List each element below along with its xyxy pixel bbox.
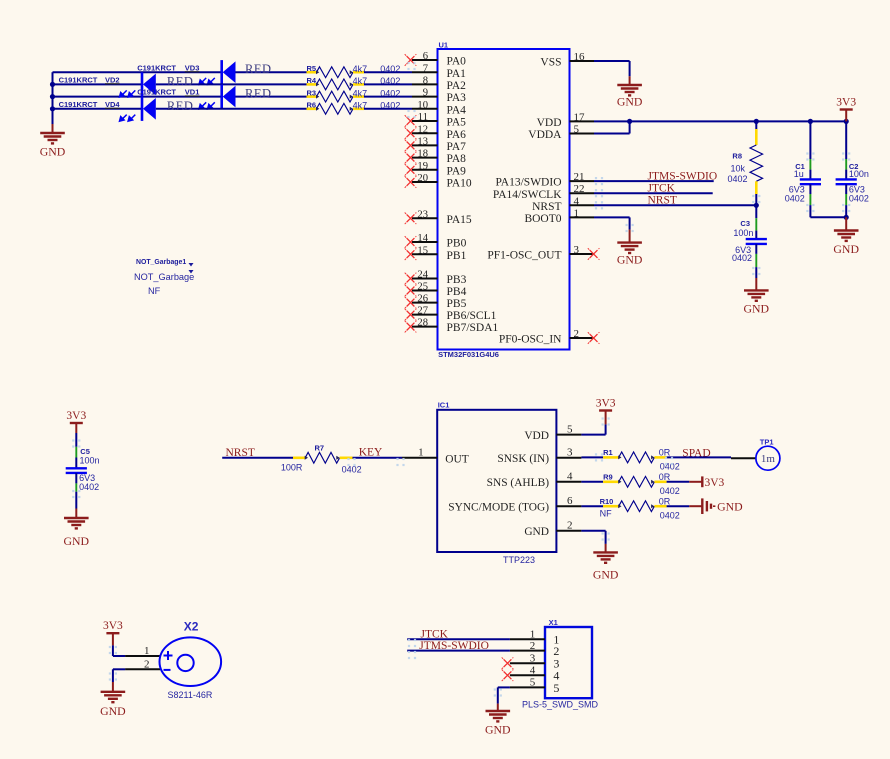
wire VSS to ground [594,60,630,62]
pin 1 X2 [125,655,160,657]
pin 20 PA10 [412,181,438,183]
wire R6 to U1 [364,108,412,110]
pin 5 X1 [510,686,545,688]
svg-text:0402: 0402 [785,194,805,204]
svg-text:1m: 1m [761,453,776,465]
svg-text:SNS (AHLB): SNS (AHLB) [487,477,550,489]
pin 6 PA0 [412,59,438,61]
svg-text:3: 3 [574,244,580,256]
svg-text:PA6: PA6 [447,129,467,141]
wire NRST [594,204,756,206]
resistor R6 4k7 [307,108,317,111]
pin 6 SYNC/MODE (TOG) [556,505,581,507]
junction C1 top [808,119,813,124]
junction C2 gnd [844,215,849,220]
svg-text:0402: 0402 [727,174,747,184]
svg-text:1: 1 [574,207,580,219]
svg-text:GND: GND [617,95,643,109]
junction [50,82,55,87]
power 3V3 sideways [689,476,702,487]
svg-text:JTCK: JTCK [421,628,449,640]
ground IC1 [593,544,618,563]
wire C1 C2 bottom rail [810,216,846,218]
pin 7 PA1 [412,71,438,73]
svg-text:12: 12 [417,124,428,135]
svg-text:VSS: VSS [540,57,561,69]
svg-text:100n: 100n [733,228,753,238]
svg-text:2: 2 [144,658,150,670]
svg-text:C3: C3 [740,219,750,228]
svg-text:R5: R5 [307,64,317,73]
svg-text:3: 3 [567,447,573,459]
diode VD1 [220,85,223,109]
svg-text:1: 1 [144,645,150,657]
svg-text:1: 1 [418,447,424,459]
capacitor C2 100n [845,121,847,159]
svg-text:NOT_Garbage: NOT_Garbage [134,272,194,282]
svg-text:PA1: PA1 [447,68,467,80]
resistor R8 10k [755,121,757,129]
svg-text:3V3: 3V3 [596,397,616,409]
junction 3V3 [844,119,849,124]
pale marks [595,177,597,179]
svg-text:3V3: 3V3 [66,410,86,422]
svg-text:23: 23 [417,209,428,220]
svg-text:9: 9 [423,88,428,99]
ground BOOT0 [617,230,642,253]
wire R3 to U1 [364,96,412,98]
pin 2 PF0-OSC_IN [570,337,593,339]
svg-text:VD3: VD3 [185,63,200,72]
no connect X1 pin4 [502,670,514,682]
svg-text:25: 25 [417,282,428,293]
wire R5 to U1 [364,71,412,73]
mcu U1 box [438,49,570,350]
svg-text:7: 7 [423,63,428,74]
no connect X1 pin3 [502,657,514,669]
svg-text:1u: 1u [794,169,804,179]
svg-text:R4: R4 [307,76,317,85]
svg-text:JTMS-SWDIO: JTMS-SWDIO [648,170,718,182]
testpoint TP1 [731,457,756,459]
svg-text:4: 4 [574,195,580,207]
wire JTCK X1 [407,638,510,640]
svg-text:R9: R9 [603,472,613,481]
pin 24 PB3 [412,278,438,280]
wire X1 pin5 gnd [498,686,510,688]
resistor R10 0R NF [603,505,619,508]
pin 3 X1 [510,662,545,664]
svg-text:R3: R3 [307,88,317,97]
svg-text:21: 21 [574,171,585,183]
wire SPAD [667,456,731,458]
pin 2 GND [556,530,581,532]
pin 9 PA3 [412,96,438,98]
svg-text:100n: 100n [849,169,869,179]
wire KEY to OUT [353,457,403,459]
pin 1 BOOT0 [570,216,595,218]
pin 2 X2 [125,668,160,670]
svg-text:100n: 100n [80,456,100,466]
wire GND bus vertical [52,72,54,124]
svg-text:5: 5 [574,124,580,136]
svg-text:PB6/SCL1: PB6/SCL1 [447,310,497,322]
pin 27 PB6/SCL1 [412,314,438,316]
svg-text:PB3: PB3 [447,274,467,286]
svg-text:0R: 0R [659,448,671,458]
svg-text:OUT: OUT [445,454,468,466]
svg-text:PA4: PA4 [447,104,467,116]
pin 15 PB1 [412,253,438,255]
capacitor C1 1u [809,121,811,159]
svg-text:VDDA: VDDA [528,129,562,141]
svg-text:NRST: NRST [532,201,561,213]
pin 25 PB4 [412,290,438,292]
pin 23 PA15 [412,217,438,219]
wire SNSK [581,456,603,458]
capacitor C5 100n [75,433,77,447]
svg-text:0402: 0402 [342,464,362,474]
svg-text:0R: 0R [659,472,671,482]
wire VD2 anode [156,83,307,85]
junction R8 bottom [754,203,759,208]
svg-text:2: 2 [567,520,573,532]
svg-text:0402: 0402 [660,462,680,472]
ground C3 [744,278,769,301]
svg-text:X1: X1 [549,618,558,627]
junction VDDA [627,119,632,124]
diode VD2 [141,72,144,96]
svg-text:PA9: PA9 [447,165,467,177]
svg-text:14: 14 [417,233,428,244]
pin 4 SNS (AHLB) [556,481,581,483]
svg-text:18: 18 [417,149,428,160]
svg-text:GND: GND [524,526,549,538]
svg-text:NF: NF [600,509,612,519]
svg-text:PA7: PA7 [447,141,467,153]
pin 26 PB5 [412,302,438,304]
connector X1 box [545,627,592,698]
svg-text:PA10: PA10 [447,178,472,190]
junction [50,94,55,99]
svg-text:0402: 0402 [79,482,99,492]
wire JTMS-SWDIO X1 [407,650,510,652]
svg-text:C191KRCT: C191KRCT [59,75,98,84]
svg-text:3V3: 3V3 [103,620,123,632]
svg-text:5: 5 [553,681,559,695]
svg-text:22: 22 [574,183,585,195]
svg-text:27: 27 [417,306,428,317]
svg-text:PB0: PB0 [447,238,467,250]
svg-text:GND: GND [64,534,90,548]
svg-text:GND: GND [617,253,643,267]
wire X2 pin2 gnd [113,668,125,670]
svg-text:4: 4 [530,665,536,677]
svg-text:PF0-OSC_IN: PF0-OSC_IN [499,334,562,346]
svg-text:STM32F031G4U6: STM32F031G4U6 [438,350,499,359]
svg-text:R10: R10 [600,497,614,506]
svg-text:VD1: VD1 [185,88,200,97]
resistor R4 4k7 [307,83,317,86]
svg-text:R8: R8 [732,152,742,161]
pin 18 PA8 [412,157,438,159]
svg-text:JTMS-SWDIO: JTMS-SWDIO [419,640,489,652]
svg-text:10k: 10k [730,164,745,174]
diode VD3 [220,60,223,84]
ground X1 [486,704,511,722]
svg-text:PA2: PA2 [447,80,467,92]
junction R8 top [754,119,759,124]
pin 12 PA6 [412,132,438,134]
pin 5 VDDA [570,133,595,135]
pin 10 PA4 [412,108,438,110]
svg-text:16: 16 [574,51,586,63]
svg-text:PB5: PB5 [447,298,467,310]
capacitor C3 100n [755,205,757,218]
resistor R9 0R [603,480,619,483]
svg-text:5: 5 [567,423,573,435]
ground X2 [101,682,126,702]
svg-text:IC1: IC1 [438,400,450,409]
ground C5 [64,509,89,529]
svg-text:PA13/SWDIO: PA13/SWDIO [495,177,561,189]
pin 19 PA9 [412,169,438,171]
wire SNS [581,481,603,483]
svg-text:R6: R6 [307,101,317,110]
svg-text:10: 10 [417,100,428,111]
pin 17 VDD [570,120,595,122]
svg-text:TP1: TP1 [760,437,774,446]
pin 4 X1 [510,674,545,676]
svg-text:GND: GND [744,302,770,316]
svg-text:NRST: NRST [648,195,677,207]
pin 13 PA7 [412,144,438,146]
svg-text:RED: RED [245,87,272,101]
resistor R7 100R [293,456,305,459]
svg-text:6: 6 [423,51,428,62]
svg-text:R7: R7 [315,443,325,452]
svg-text:TTP223: TTP223 [503,555,535,565]
svg-text:PA0: PA0 [447,56,467,68]
svg-text:C191KRCT: C191KRCT [137,63,176,72]
resistor R3 4k7 [307,95,317,98]
svg-text:28: 28 [417,318,428,329]
svg-text:15: 15 [417,245,428,256]
svg-text:SYNC/MODE (TOG): SYNC/MODE (TOG) [448,501,549,513]
svg-text:JTCK: JTCK [648,182,676,194]
pin 14 PB0 [412,241,438,243]
svg-text:0402: 0402 [849,194,869,204]
wire VD1 anode [236,96,307,98]
svg-text:VD2: VD2 [105,75,120,84]
svg-text:C191KRCT: C191KRCT [59,100,98,109]
svg-text:X2: X2 [184,620,199,634]
svg-text:NF: NF [148,286,161,296]
resistor R1 0R [603,456,619,459]
svg-text:PB7/SDA1: PB7/SDA1 [447,322,499,334]
svg-text:GND: GND [717,500,743,514]
svg-text:VDD: VDD [537,117,562,129]
svg-text:VD4: VD4 [105,100,120,109]
svg-text:R1: R1 [603,448,613,457]
ground [40,124,65,143]
svg-text:6: 6 [567,495,573,507]
svg-text:GND: GND [40,144,66,158]
svg-text:NOT_Garbage1: NOT_Garbage1 [136,259,186,266]
pin 1 OUT [402,457,437,459]
pin 21 PA13/SWDIO [570,180,595,182]
svg-text:24: 24 [417,270,428,281]
svg-text:BOOT0: BOOT0 [524,213,561,225]
svg-text:C191KRCT: C191KRCT [137,88,176,97]
ground sideways [689,498,714,514]
wire R4 to U1 [364,83,412,85]
wire NRST [222,457,293,459]
pin 3 SNSK (IN) [556,457,581,459]
wire X2 pin1 [112,645,114,656]
svg-text:11: 11 [418,112,428,123]
svg-text:17: 17 [574,111,586,123]
pin 16 VSS [570,60,595,62]
wire LED row 1 [53,71,222,73]
svg-text:GND: GND [485,723,511,737]
svg-text:GND: GND [593,568,619,582]
svg-text:0402: 0402 [732,253,752,263]
pin 28 PB7/SDA1 [412,326,438,328]
pin 8 PA2 [412,83,438,85]
wire JTCK [594,192,713,194]
svg-text:3V3: 3V3 [836,96,856,108]
svg-text:100R: 100R [281,462,303,472]
svg-text:PB1: PB1 [447,250,467,262]
svg-text:SNSK (IN): SNSK (IN) [497,453,549,465]
ic IC1 box [437,410,556,552]
pin 22 PA14/SWCLK [570,192,595,194]
svg-text:13: 13 [417,137,428,148]
pin 5 VDD [556,434,581,436]
svg-text:PLS-5_SWD_SMD: PLS-5_SWD_SMD [522,700,599,710]
svg-text:PB4: PB4 [447,286,467,298]
svg-text:0R: 0R [659,496,671,506]
wire BOOT0 to ground [594,216,630,218]
wire R9 to 3V3 [667,481,690,483]
wire VDD 3V3 [581,434,605,436]
ground C1 C2 [834,217,859,241]
wire VD4 anode [156,108,307,110]
svg-text:1: 1 [530,629,536,641]
wire IC1 gnd [581,530,605,532]
wire LED row 4 [53,108,143,110]
sounder X2 body [160,637,222,686]
svg-text:KEY: KEY [359,447,383,459]
svg-text:26: 26 [417,294,428,305]
wire R10 to gnd [667,505,690,507]
svg-text:3: 3 [530,652,536,664]
wire JTMS-SWDIO [594,180,714,182]
svg-text:PA14/SWCLK: PA14/SWCLK [493,189,562,201]
resistor R5 4k7 [307,71,317,74]
wire LED row 3 [53,96,222,98]
svg-text:PA3: PA3 [447,92,467,104]
svg-text:GND: GND [100,704,126,718]
junction [50,106,55,111]
ground VSS [617,76,642,95]
svg-text:2: 2 [574,328,580,340]
svg-text:GND: GND [833,242,859,256]
wire VD3 anode [236,71,307,73]
svg-text:4: 4 [567,471,573,483]
svg-text:RED: RED [167,74,194,88]
svg-text:0402: 0402 [660,510,680,520]
pin 4 NRST [570,204,595,206]
svg-text:3V3: 3V3 [705,477,725,489]
wire LED row 2 [53,83,143,85]
svg-text:0402: 0402 [660,486,680,496]
svg-text:5: 5 [530,677,536,689]
svg-text:8: 8 [423,76,428,87]
svg-text:PF1-OSC_OUT: PF1-OSC_OUT [487,250,561,262]
svg-text:PA15: PA15 [447,214,472,226]
svg-text:U1: U1 [439,41,449,50]
svg-text:VDD: VDD [524,430,549,442]
svg-text:20: 20 [417,173,428,184]
svg-text:RED: RED [167,99,194,113]
pin 2 X1 [510,650,545,652]
svg-text:PA8: PA8 [447,153,467,165]
svg-text:19: 19 [417,161,428,172]
wire VDD rail [594,120,846,122]
diode VD4 [141,97,144,121]
svg-text:RED: RED [245,62,272,76]
svg-text:S8211-46R: S8211-46R [168,690,213,700]
wire SYNC [581,505,603,507]
wire VDDA [594,133,630,135]
pin 11 PA5 [412,120,438,122]
svg-text:2: 2 [530,640,536,652]
pin 1 X1 [510,638,545,640]
svg-text:PA5: PA5 [447,117,467,129]
pin 3 PF1-OSC_OUT [570,253,593,255]
